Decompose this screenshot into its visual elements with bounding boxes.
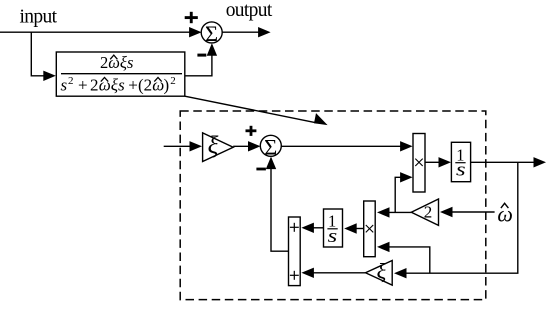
svg-text:s: s bbox=[456, 160, 466, 181]
svg-text:output: output bbox=[226, 0, 273, 21]
node plus sign adder bottom bbox=[290, 271, 299, 280]
wire xi2 gain output to adder bottom input bbox=[313, 272, 366, 274]
wire tee from feedback row up to multiplier M2 bottom input bbox=[389, 247, 430, 273]
wire output arrow bbox=[222, 31, 259, 33]
svg-text:s: s bbox=[328, 226, 338, 247]
gain block xi2 (triangle U4) bbox=[366, 261, 393, 286]
integrator block I2 (1/s) bbox=[324, 209, 343, 247]
node plus sign adder top bbox=[290, 223, 299, 232]
wire feedback branch down from output bbox=[406, 162, 518, 273]
svg-text:ξ: ξ bbox=[208, 132, 219, 159]
value label numerator 2*omega*xi*s bbox=[100, 53, 133, 72]
wire branch from gain 2 output up to multiplier M1 bottom input bbox=[395, 177, 401, 212]
wire integrator I2 to adder top input bbox=[313, 227, 324, 229]
wire gain 2 output to multiplier M2 top input bbox=[389, 211, 412, 213]
svg-text:Σ: Σ bbox=[205, 21, 218, 46]
hat over omega in denominator term2 bbox=[154, 78, 161, 82]
dashed subsystem box bbox=[180, 111, 486, 300]
wire main output line bbox=[471, 161, 534, 163]
hat over omega in numerator bbox=[110, 55, 117, 59]
svg-text:ξ: ξ bbox=[377, 259, 387, 284]
wire adder output up into summer S2 minus bbox=[271, 158, 289, 251]
wire inner input into xi gain bbox=[164, 145, 191, 147]
multiplier block M2 bbox=[364, 201, 376, 257]
node minus sign at summer S2 bbox=[256, 168, 266, 171]
fraction bar of transfer block bbox=[61, 73, 182, 75]
wire zoom-detail diagonal pointer bbox=[185, 96, 317, 123]
wire main input line bbox=[0, 31, 191, 33]
svg-text:input: input bbox=[20, 6, 58, 27]
wire multiplier M1 to integrator I1 bbox=[425, 161, 440, 163]
value label denominator s^2+2*omega*xi*s+(2*omega)^2 bbox=[61, 75, 176, 94]
svg-text:ω: ω bbox=[497, 202, 513, 227]
wire xi gain to summer S2 bbox=[233, 145, 250, 147]
wire branch from input down to transfer block bbox=[31, 32, 44, 76]
summing junction S2 bbox=[260, 135, 281, 156]
svg-text:2: 2 bbox=[424, 203, 433, 222]
svg-text:Σ: Σ bbox=[264, 135, 277, 160]
wire omega-hat into gain 2 bbox=[452, 211, 495, 213]
summing junction S1 bbox=[201, 22, 222, 43]
node omega-hat input label bbox=[497, 202, 513, 227]
multiplier block M1 bbox=[413, 134, 425, 193]
wire multiplier M2 to integrator I2 bbox=[356, 228, 364, 230]
adder block A1 bbox=[289, 217, 301, 286]
gain block xi (triangle U2) bbox=[203, 133, 234, 162]
svg-text:2ωξs: 2ωξs bbox=[100, 53, 133, 72]
hat over omega input bbox=[501, 203, 509, 208]
gain block 2 (triangle U3) bbox=[411, 199, 438, 225]
transfer function block G(s) bbox=[56, 52, 185, 96]
wire summer S2 to multiplier M1 top input bbox=[281, 145, 401, 147]
node output label bbox=[226, 0, 273, 21]
wire transfer block output up into summer S1 bbox=[185, 45, 212, 76]
wire arrowhead into xi2 gain bbox=[394, 268, 407, 278]
wire arrowhead into summer S1 bbox=[189, 27, 202, 37]
node input label bbox=[20, 6, 58, 27]
node minus sign at summer S1 bbox=[197, 54, 206, 57]
node plus sign at summer S1 bbox=[185, 12, 198, 23]
node plus sign at summer S2 bbox=[246, 126, 257, 136]
integrator block I1 (1/s) bbox=[451, 142, 470, 181]
hat over omega in denominator term1 bbox=[101, 78, 108, 82]
